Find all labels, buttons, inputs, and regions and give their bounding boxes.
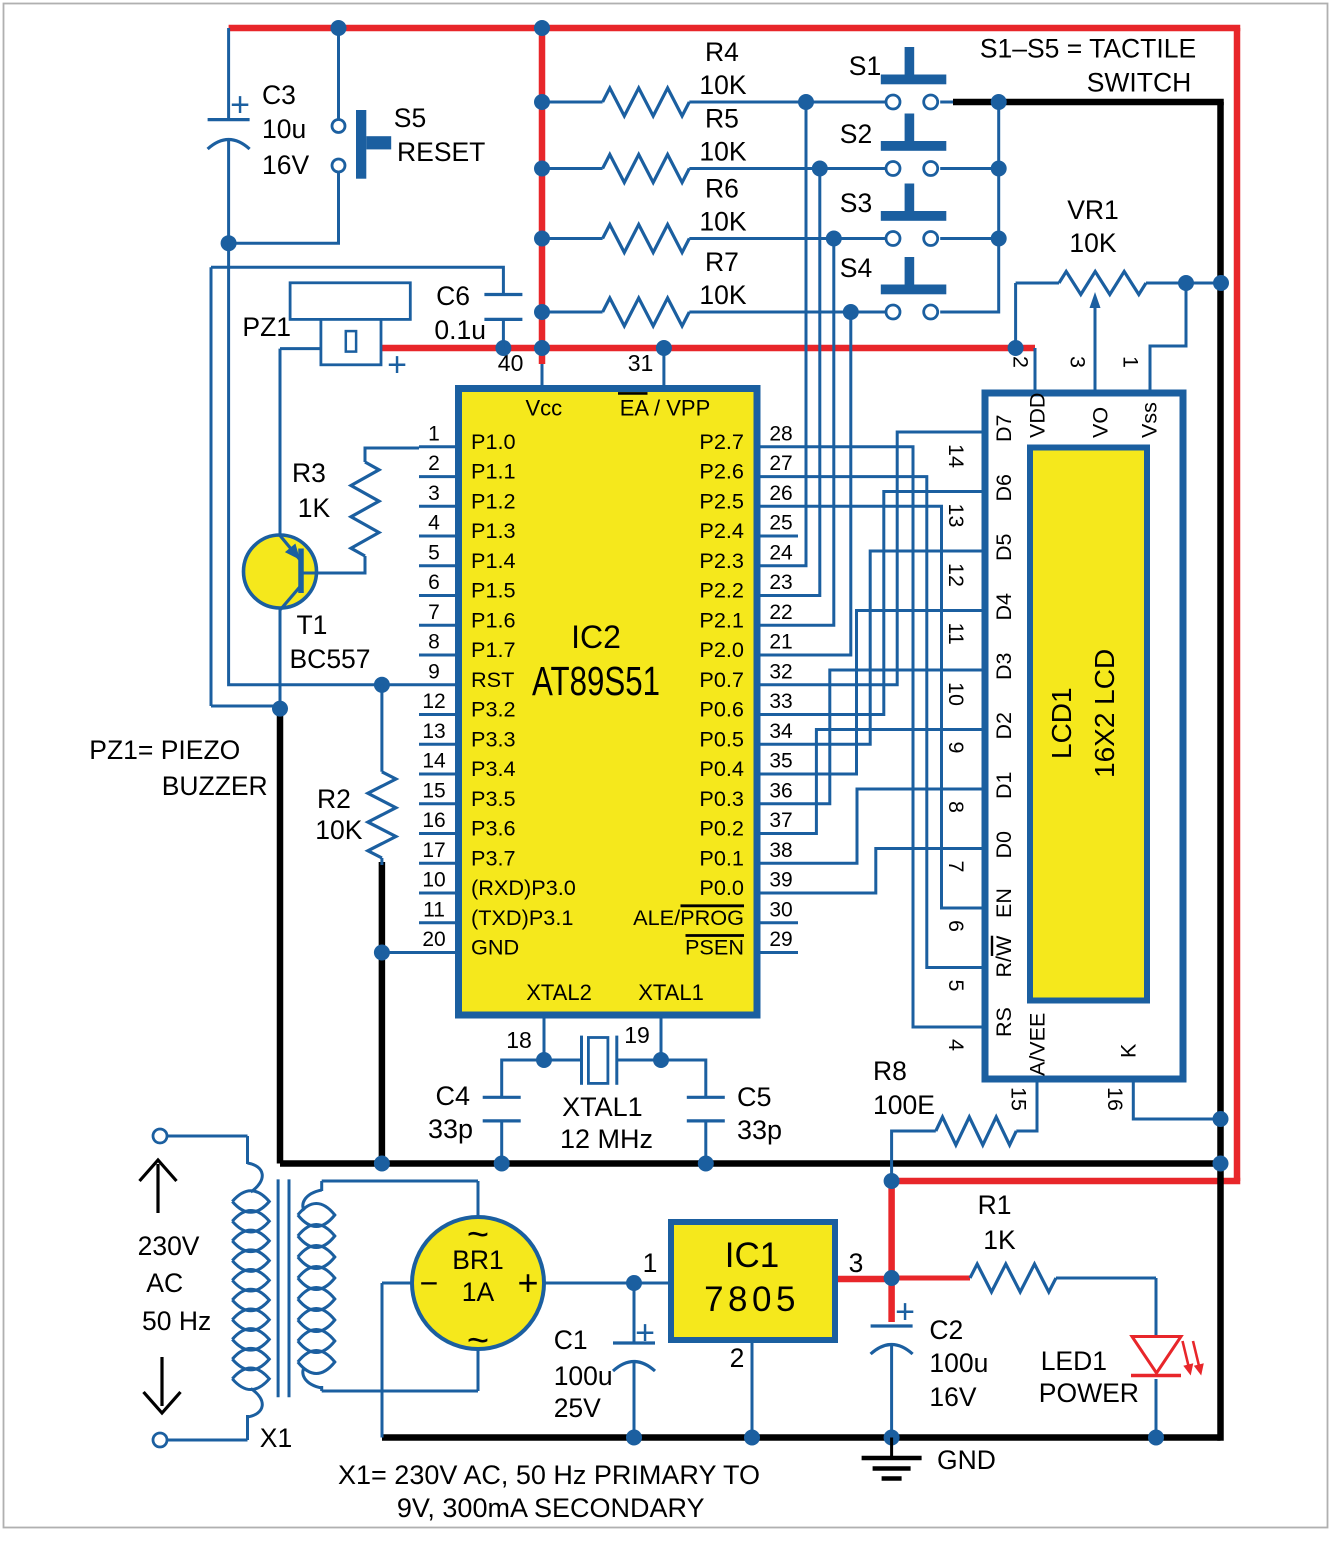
svg-text:24: 24 (769, 541, 793, 564)
svg-text:P2.2: P2.2 (699, 578, 744, 603)
svg-text:1: 1 (643, 1248, 658, 1278)
svg-text:RESET: RESET (397, 137, 485, 167)
svg-text:S5: S5 (394, 103, 426, 133)
svg-text:P2.7: P2.7 (699, 429, 744, 454)
svg-text:R6: R6 (705, 174, 739, 204)
svg-text:2: 2 (428, 452, 440, 475)
svg-text:K: K (1117, 1043, 1141, 1058)
svg-text:6: 6 (428, 571, 440, 594)
svg-text:P0.6: P0.6 (699, 697, 744, 722)
svg-text:16X2 LCD: 16X2 LCD (1089, 649, 1120, 778)
svg-text:P1.1: P1.1 (471, 459, 516, 484)
svg-text:20: 20 (422, 928, 445, 951)
svg-text:10: 10 (944, 682, 968, 706)
svg-text:10K: 10K (699, 207, 746, 237)
svg-text:230V: 230V (138, 1231, 200, 1261)
svg-text:11: 11 (944, 623, 968, 645)
svg-text:22: 22 (769, 601, 792, 624)
svg-text:23: 23 (769, 571, 792, 594)
svg-text:36: 36 (769, 779, 792, 802)
svg-text:RST: RST (471, 667, 514, 692)
svg-text:S4: S4 (840, 253, 872, 283)
svg-text:S3: S3 (840, 188, 872, 218)
svg-text:5: 5 (944, 980, 968, 992)
svg-text:16V: 16V (929, 1382, 976, 1412)
svg-text:9: 9 (944, 742, 968, 754)
svg-text:D0: D0 (992, 831, 1016, 859)
svg-text:D4: D4 (992, 593, 1016, 621)
svg-text:18: 18 (506, 1027, 532, 1053)
svg-text:0.1u: 0.1u (434, 315, 486, 345)
svg-text:Vss: Vss (1138, 402, 1162, 438)
svg-text:P0.5: P0.5 (699, 726, 744, 751)
svg-text:C1: C1 (554, 1325, 588, 1355)
svg-text:26: 26 (769, 482, 792, 505)
svg-text:PSEN: PSEN (685, 935, 744, 960)
svg-text:P3.7: P3.7 (471, 845, 516, 870)
svg-text:100u: 100u (554, 1361, 613, 1391)
svg-text:2: 2 (1009, 356, 1033, 368)
svg-text:D6: D6 (992, 474, 1016, 502)
svg-text:25V: 25V (554, 1393, 601, 1423)
svg-text:VR1: VR1 (1067, 195, 1119, 225)
svg-text:PZ1= PIEZO: PZ1= PIEZO (89, 735, 240, 765)
svg-text:P3.5: P3.5 (471, 786, 516, 811)
svg-text:1: 1 (1119, 356, 1143, 368)
svg-text:AT89S51: AT89S51 (532, 658, 660, 704)
svg-text:33p: 33p (428, 1114, 473, 1144)
svg-text:P0.1: P0.1 (699, 845, 744, 870)
svg-text:P3.6: P3.6 (471, 816, 516, 841)
svg-text:P1.7: P1.7 (471, 637, 516, 662)
svg-text:P3.3: P3.3 (471, 726, 516, 751)
svg-text:12: 12 (944, 563, 968, 587)
svg-text:−: − (420, 1265, 439, 1301)
svg-text:10K: 10K (1069, 228, 1116, 258)
svg-text:16: 16 (1103, 1087, 1127, 1111)
svg-text:16: 16 (422, 809, 445, 832)
svg-text:(RXD)P3.0: (RXD)P3.0 (471, 875, 576, 900)
svg-text:50 Hz: 50 Hz (142, 1306, 211, 1336)
svg-text:13: 13 (944, 504, 968, 528)
svg-text:16V: 16V (262, 150, 309, 180)
svg-text:12 MHz: 12 MHz (560, 1124, 653, 1154)
svg-text:P2.5: P2.5 (699, 488, 744, 513)
svg-text:IC1: IC1 (725, 1236, 779, 1275)
svg-text:10u: 10u (262, 114, 306, 144)
svg-text:3: 3 (428, 482, 440, 505)
svg-text:GND: GND (471, 935, 519, 960)
svg-text:10K: 10K (699, 70, 746, 100)
svg-text:S1: S1 (849, 51, 881, 81)
svg-text:33: 33 (769, 690, 792, 713)
svg-text:P0.2: P0.2 (699, 816, 744, 841)
svg-text:9V, 300mA SECONDARY: 9V, 300mA SECONDARY (397, 1493, 705, 1523)
svg-text:D2: D2 (992, 712, 1016, 739)
svg-text:Vcc: Vcc (525, 396, 562, 421)
svg-text:R3: R3 (292, 458, 326, 488)
svg-text:C3: C3 (262, 80, 296, 110)
svg-text:9: 9 (428, 660, 440, 683)
svg-text:LCD1: LCD1 (1046, 687, 1077, 759)
svg-text:EN: EN (992, 888, 1016, 918)
svg-text:P2.1: P2.1 (699, 607, 744, 632)
svg-text:ALE/PROG: ALE/PROG (633, 905, 744, 930)
svg-text:D7: D7 (992, 415, 1016, 442)
svg-text:3: 3 (1066, 356, 1090, 368)
svg-text:XTAL1: XTAL1 (638, 980, 704, 1005)
svg-text:R8: R8 (873, 1056, 907, 1086)
svg-text:+: + (895, 1293, 915, 1331)
svg-text:P3.2: P3.2 (471, 697, 516, 722)
svg-text:POWER: POWER (1039, 1378, 1139, 1408)
svg-text:7805: 7805 (704, 1280, 800, 1319)
svg-text:+: + (635, 1314, 655, 1352)
svg-text:D1: D1 (992, 772, 1016, 799)
svg-text:D3: D3 (992, 652, 1016, 680)
svg-text:VO: VO (1089, 407, 1113, 438)
svg-text:P3.4: P3.4 (471, 756, 516, 781)
svg-text:38: 38 (769, 839, 792, 862)
svg-text:12: 12 (422, 690, 445, 713)
svg-text:T1: T1 (297, 610, 328, 640)
svg-text:RS: RS (992, 1007, 1016, 1037)
svg-text:R/W: R/W (992, 935, 1016, 978)
svg-text:10: 10 (422, 869, 445, 892)
svg-text:21: 21 (769, 631, 792, 654)
svg-text:S1–S5 = TACTILE: S1–S5 = TACTILE (980, 34, 1196, 64)
svg-text:8: 8 (428, 631, 440, 654)
svg-text:25: 25 (769, 512, 792, 535)
svg-text:14: 14 (944, 444, 968, 468)
svg-text:14: 14 (422, 750, 446, 773)
svg-text:P0.0: P0.0 (699, 875, 744, 900)
svg-text:P0.4: P0.4 (699, 756, 744, 781)
svg-text:A/VEE: A/VEE (1026, 1013, 1050, 1076)
svg-text:D5: D5 (992, 533, 1016, 561)
svg-text:19: 19 (624, 1022, 650, 1048)
svg-text:3: 3 (849, 1248, 864, 1278)
svg-text:P2.6: P2.6 (699, 459, 744, 484)
svg-text:AC: AC (146, 1268, 183, 1298)
svg-text:VDD: VDD (1025, 393, 1049, 438)
svg-text:15: 15 (1007, 1087, 1031, 1111)
svg-text:6: 6 (944, 920, 968, 932)
svg-text:1A: 1A (462, 1277, 495, 1307)
svg-text:7: 7 (428, 601, 440, 624)
svg-text:R2: R2 (317, 784, 351, 814)
svg-text:30: 30 (769, 898, 792, 921)
svg-text:BR1: BR1 (452, 1245, 504, 1275)
svg-text:1K: 1K (298, 493, 331, 523)
svg-text:13: 13 (422, 720, 445, 743)
svg-text:GND: GND (937, 1445, 996, 1475)
svg-text:BC557: BC557 (290, 644, 371, 674)
svg-text:P1.3: P1.3 (471, 518, 516, 543)
svg-text:P2.3: P2.3 (699, 548, 744, 573)
svg-text:29: 29 (769, 928, 792, 951)
svg-text:11: 11 (423, 898, 445, 921)
svg-text:R7: R7 (705, 247, 739, 277)
svg-text:1: 1 (428, 422, 440, 445)
svg-text:X1= 230V AC, 50 Hz PRIMARY TO: X1= 230V AC, 50 Hz PRIMARY TO (338, 1460, 760, 1490)
svg-text:100E: 100E (873, 1090, 935, 1120)
svg-text:R5: R5 (705, 104, 739, 134)
svg-text:39: 39 (769, 869, 792, 892)
svg-text:P2.0: P2.0 (699, 637, 744, 662)
svg-text:1K: 1K (983, 1225, 1016, 1255)
svg-text:31: 31 (628, 350, 654, 376)
svg-text:33p: 33p (737, 1115, 782, 1145)
svg-text:(TXD)P3.1: (TXD)P3.1 (471, 905, 573, 930)
svg-text:8: 8 (944, 801, 968, 813)
svg-text:P1.2: P1.2 (471, 488, 516, 513)
svg-text:P2.4: P2.4 (699, 518, 744, 543)
svg-text:37: 37 (769, 809, 792, 832)
svg-text:P1.5: P1.5 (471, 578, 516, 603)
svg-text:X1: X1 (260, 1423, 292, 1453)
svg-text:10K: 10K (699, 280, 746, 310)
svg-text:C6: C6 (436, 281, 470, 311)
svg-text:32: 32 (769, 660, 792, 683)
svg-text:P1.6: P1.6 (471, 607, 516, 632)
svg-text:P1.0: P1.0 (471, 429, 516, 454)
svg-text:4: 4 (944, 1039, 968, 1051)
svg-text:4: 4 (428, 512, 440, 535)
svg-text:5: 5 (428, 541, 440, 564)
svg-text:+: + (387, 346, 407, 384)
svg-text:27: 27 (769, 452, 792, 475)
svg-text:15: 15 (422, 779, 445, 802)
svg-text:C4: C4 (435, 1081, 470, 1111)
svg-text:C5: C5 (737, 1082, 772, 1112)
svg-text:35: 35 (769, 750, 792, 773)
svg-text:100u: 100u (929, 1348, 988, 1378)
svg-text:SWITCH: SWITCH (1087, 68, 1192, 98)
svg-text:EA / VPP: EA / VPP (620, 396, 711, 421)
svg-text:34: 34 (769, 720, 793, 743)
svg-text:+: + (517, 1262, 538, 1303)
svg-text:PZ1: PZ1 (242, 312, 291, 342)
svg-text:R4: R4 (705, 37, 739, 67)
svg-text:P0.7: P0.7 (699, 667, 744, 692)
svg-text:BUZZER: BUZZER (162, 771, 268, 801)
svg-text:7: 7 (944, 861, 968, 873)
svg-text:P1.4: P1.4 (471, 548, 516, 573)
svg-text:XTAL1: XTAL1 (562, 1092, 643, 1122)
svg-text:10K: 10K (699, 137, 746, 167)
svg-text:P0.3: P0.3 (699, 786, 744, 811)
svg-text:~: ~ (467, 1320, 489, 1362)
svg-text:+: + (230, 86, 250, 124)
svg-text:LED1: LED1 (1041, 1346, 1107, 1376)
svg-text:R1: R1 (978, 1190, 1012, 1220)
svg-text:S2: S2 (840, 119, 872, 149)
svg-text:28: 28 (769, 422, 792, 445)
svg-text:10K: 10K (315, 815, 362, 845)
svg-text:2: 2 (730, 1343, 745, 1373)
svg-text:C2: C2 (929, 1315, 963, 1345)
svg-text:XTAL2: XTAL2 (526, 980, 592, 1005)
svg-text:17: 17 (422, 839, 445, 862)
svg-text:IC2: IC2 (571, 619, 621, 655)
